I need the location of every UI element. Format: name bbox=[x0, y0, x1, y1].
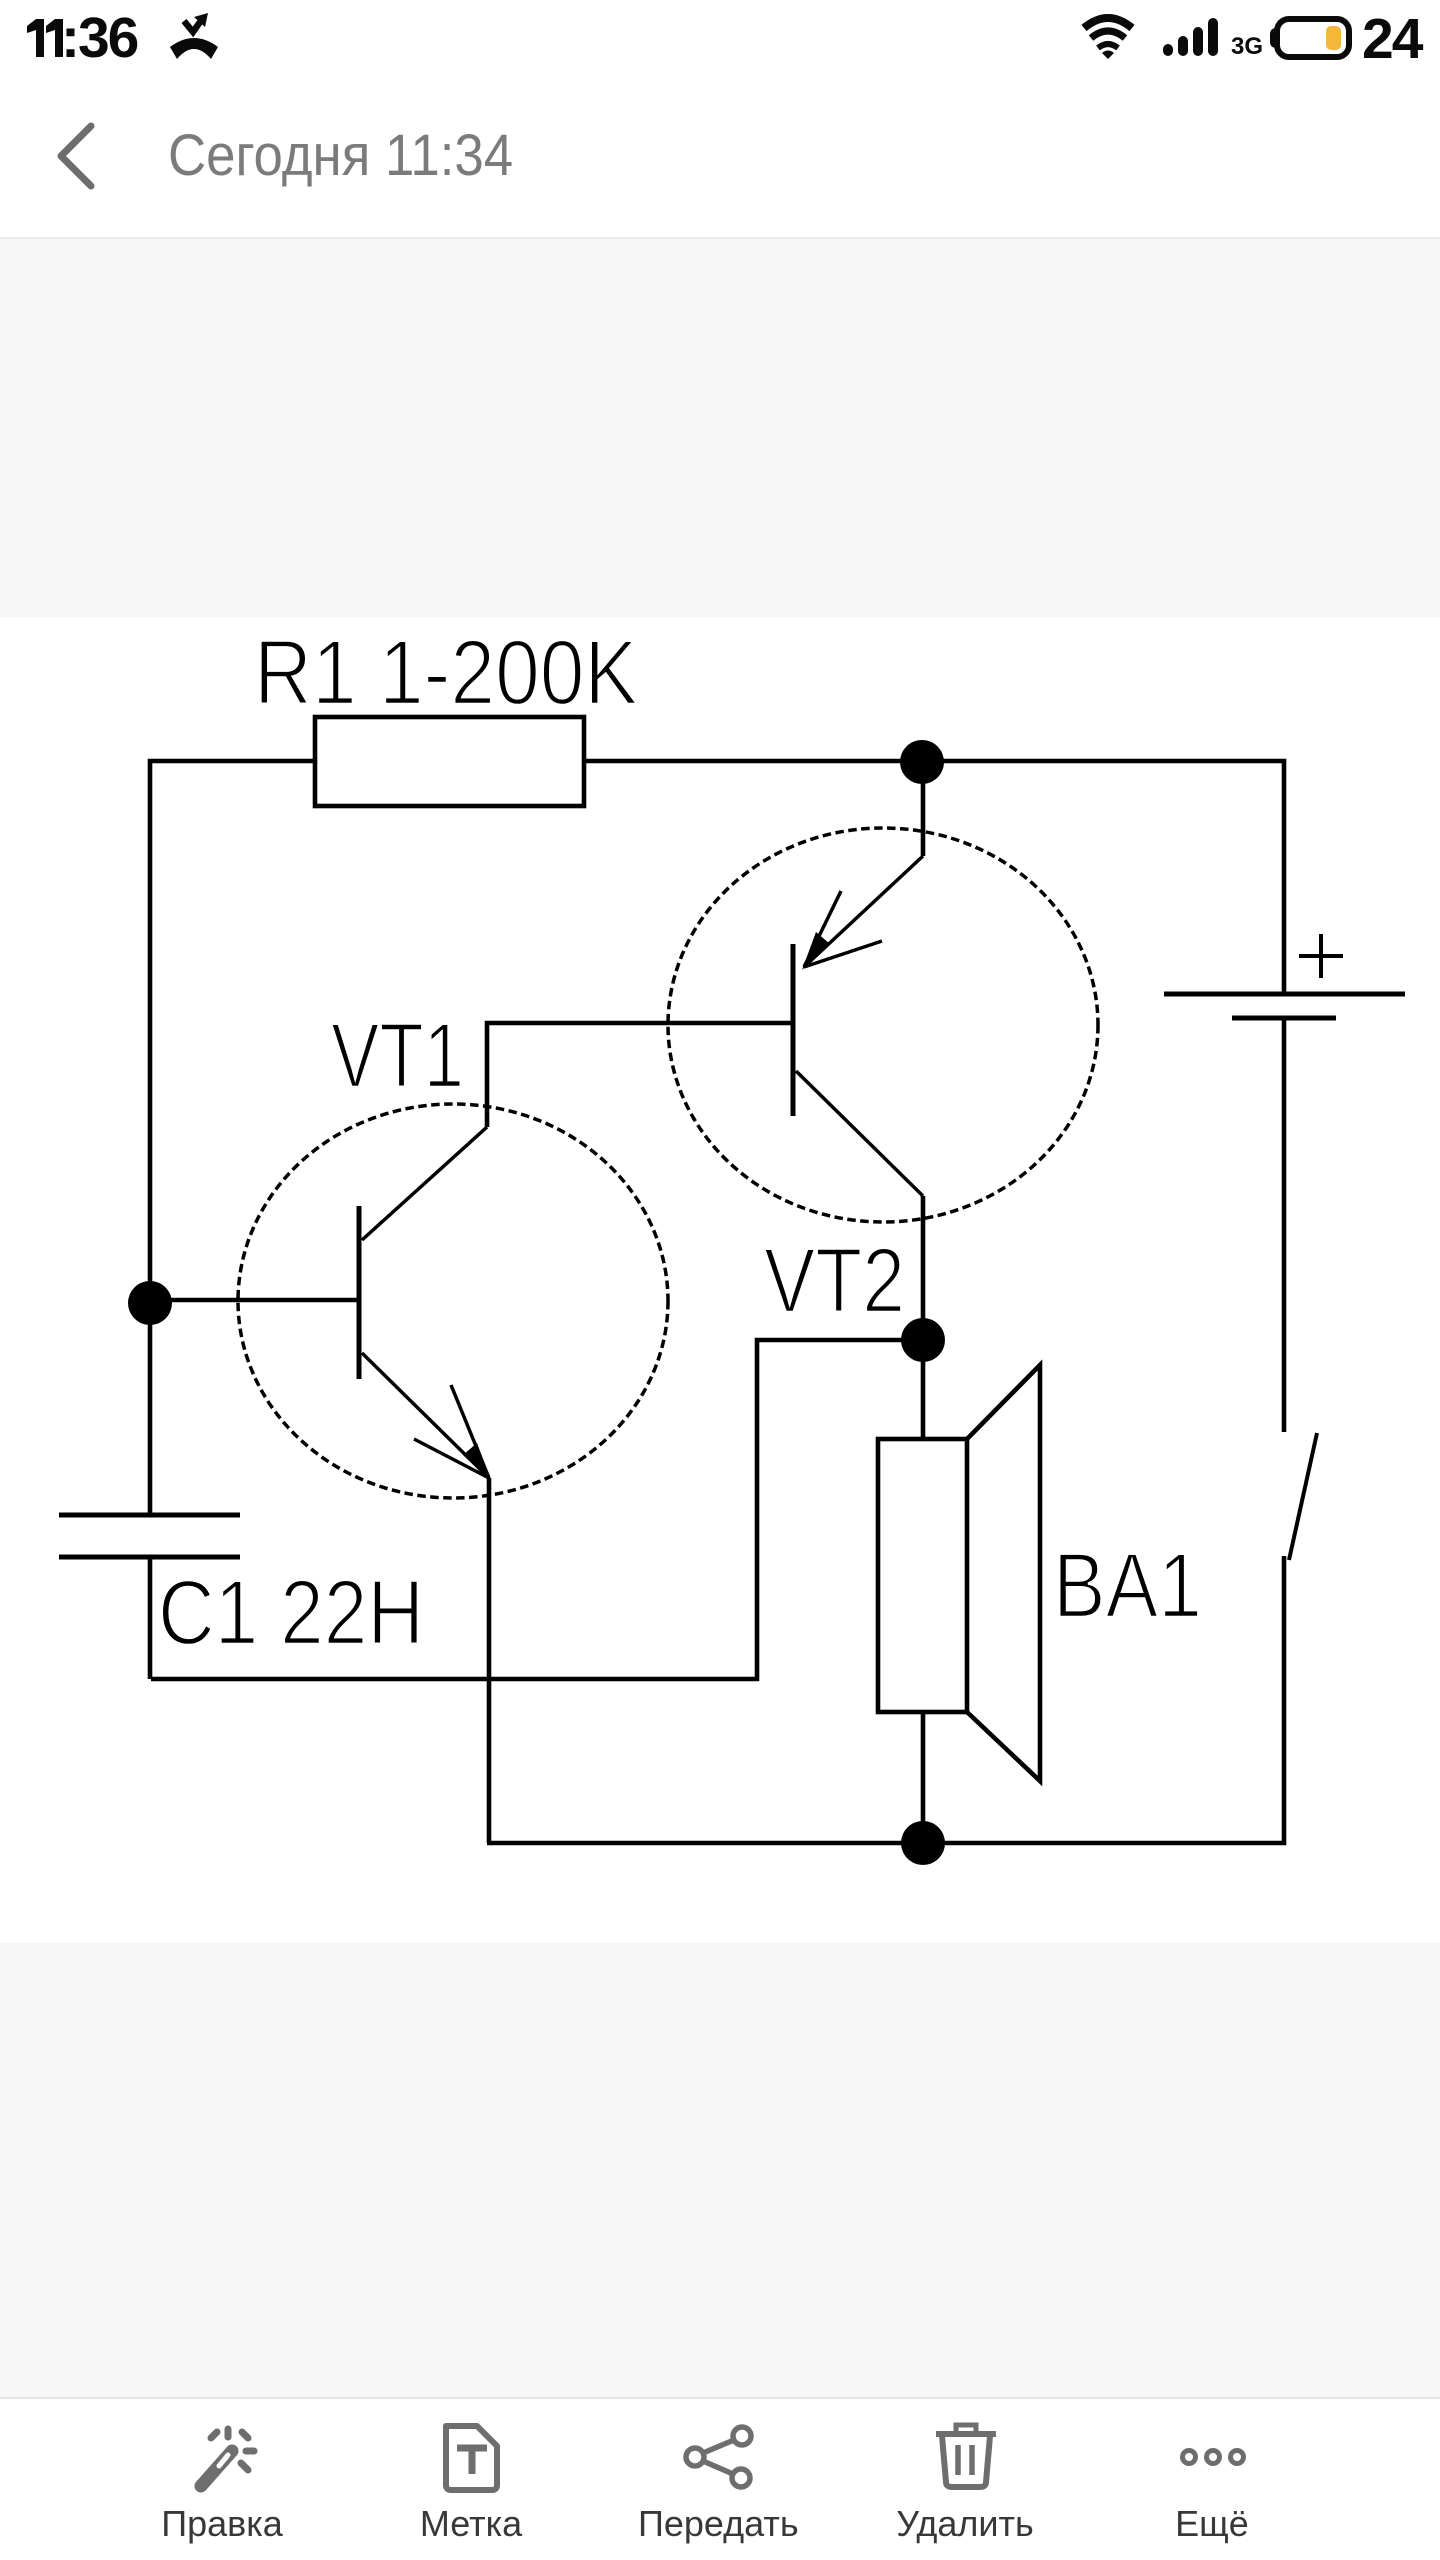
capacitor C1 bbox=[59, 1515, 240, 1557]
switch SA1 bbox=[1289, 1433, 1317, 1560]
wire VT1 base bbox=[150, 1298, 359, 1303]
signal bars bbox=[1163, 18, 1219, 56]
wire speaker top bbox=[921, 1340, 926, 1439]
node bottom junction bbox=[901, 1821, 945, 1865]
time 11 drawn as svg to avoid foot-serif bbox=[26, 18, 66, 58]
missed call icon bbox=[164, 11, 224, 61]
battery GB1 bbox=[1164, 994, 1405, 1018]
wire switch to bottom rail bbox=[487, 1556, 1284, 1843]
battery polarity label + bbox=[1299, 934, 1343, 978]
wire speaker bottom bbox=[921, 1712, 926, 1843]
wifi bbox=[1080, 13, 1136, 60]
wire VT2 emitter to top bbox=[921, 762, 926, 856]
svg-text:VT1: VT1 bbox=[331, 1005, 464, 1107]
item 4 delete bbox=[885, 2422, 1045, 2497]
wire VT2 collector down bbox=[921, 1196, 926, 1340]
wire mid junction to C1 bbox=[151, 1340, 923, 1679]
transistor VT2 bbox=[668, 828, 1098, 1222]
wire top rail left bbox=[150, 761, 315, 1515]
node left junction bbox=[128, 1281, 172, 1325]
wire VT1 emitter down bbox=[487, 1478, 492, 1843]
transistor VT1 bbox=[238, 1104, 668, 1498]
wire C1 bottom bbox=[148, 1557, 153, 1679]
battery bbox=[1266, 14, 1354, 62]
node top junction bbox=[900, 740, 944, 784]
item 3 share bbox=[638, 2422, 798, 2497]
wire top rail right bbox=[584, 761, 1284, 994]
gray band bottom bbox=[0, 1942, 1440, 2397]
resistor R1 bbox=[315, 717, 584, 806]
svg-text:VT2: VT2 bbox=[764, 1230, 905, 1332]
wire VT1 collector to VT2 base bbox=[487, 1023, 793, 1127]
wire battery to switch bbox=[1282, 1018, 1287, 1432]
item 5 more bbox=[1132, 2422, 1292, 2497]
svg-text:R1 1-200K: R1 1-200K bbox=[254, 622, 638, 724]
svg-text:BA1: BA1 bbox=[1053, 1535, 1202, 1637]
svg-text:C1 22H: C1 22H bbox=[158, 1562, 424, 1664]
gray band top bbox=[0, 237, 1440, 618]
speaker BA1 bbox=[878, 1365, 1040, 1781]
node mid junction bbox=[901, 1318, 945, 1362]
item 1 edit bbox=[142, 2422, 302, 2497]
item 2 label bbox=[391, 2422, 551, 2497]
